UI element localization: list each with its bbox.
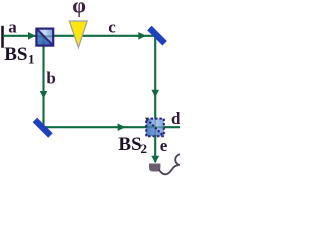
label e	[160, 136, 168, 155]
svg-text:φ: φ	[72, 0, 86, 18]
mirror top-right	[147, 26, 167, 46]
svg-text:b: b	[46, 69, 55, 88]
svg-text:d: d	[171, 109, 180, 128]
phase shifter (yellow triangle)	[69, 21, 87, 48]
svg-text:a: a	[8, 17, 17, 36]
svg-text:e: e	[160, 136, 168, 155]
svg-text:1: 1	[28, 52, 35, 67]
detector	[149, 164, 160, 172]
beam splitter BS1	[36, 29, 54, 46]
beam a	[3, 35, 36, 37]
arrow on beam c	[138, 32, 146, 40]
label phi	[72, 0, 86, 18]
label BS1	[4, 44, 34, 66]
label a	[8, 17, 17, 36]
beam splitter BS2 (dashed)	[146, 119, 164, 137]
svg-text:BS: BS	[118, 134, 141, 155]
beam from mirror to BS2 and output d	[45, 126, 180, 128]
input port bar	[1, 26, 4, 48]
arrow on beam b	[40, 91, 48, 99]
svg-text:c: c	[108, 17, 116, 36]
detector cable	[159, 154, 187, 174]
svg-text:2: 2	[141, 141, 148, 156]
label c	[108, 17, 116, 36]
svg-text:BS: BS	[4, 44, 27, 65]
beam from mirror down to BS2	[154, 37, 156, 120]
label BS2	[118, 134, 147, 156]
beam c	[53, 35, 154, 37]
mirror bottom-left	[33, 118, 53, 138]
label d	[171, 109, 181, 128]
arrow on beam a	[28, 32, 36, 40]
arrow on beam e	[151, 156, 159, 164]
beam b	[42, 45, 44, 128]
arrow on bottom beam	[118, 123, 126, 131]
label b	[46, 69, 55, 88]
arrow on right vertical beam	[151, 90, 159, 98]
beam e	[154, 135, 156, 162]
